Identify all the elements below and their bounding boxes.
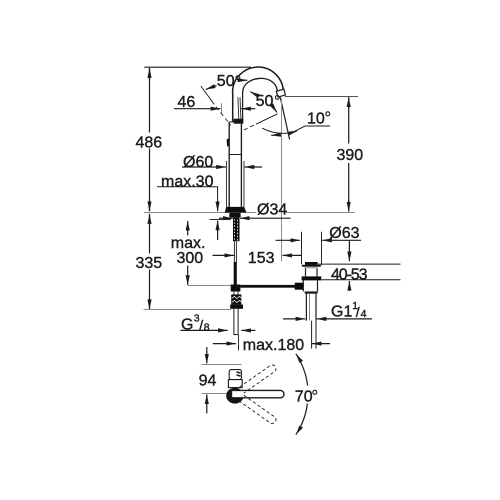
leader arrow 50 to spout pipe (239, 79, 248, 81)
dimension 335 (149, 214, 151, 254)
drain extension lines (301, 232, 303, 265)
max.30 leader and arrows (157, 187, 218, 202)
svg-text:390: 390 (337, 147, 364, 164)
svg-text:50: 50 (256, 93, 274, 110)
riser pipe left wall (232, 92, 234, 122)
drain flange top (305, 262, 318, 265)
base sleeve right wall (243, 161, 245, 207)
dimension 153 (213, 254, 235, 256)
hose fitting square (231, 285, 241, 292)
top view swivel disc (226, 388, 243, 404)
svg-text:Ø60: Ø60 (183, 154, 213, 171)
lever rod (237, 97, 240, 119)
dashed swivel position lower (240, 395, 278, 425)
svg-text:10: 10 (307, 111, 325, 128)
svg-text:94: 94 (199, 372, 217, 389)
body top edge (229, 121, 241, 123)
G3/8 arrows (181, 329, 228, 331)
svg-text:4: 4 (361, 308, 367, 320)
label G3/8 (181, 312, 210, 333)
svg-text:max.30: max.30 (161, 173, 214, 190)
mounting nut under deck (229, 213, 240, 218)
O60 arrows (182, 166, 226, 168)
svg-text:486: 486 (136, 135, 163, 152)
svg-text:G1: G1 (331, 303, 352, 320)
degree circle 50 lower (275, 96, 279, 100)
thin tube below nut (233, 309, 235, 335)
supply hose thick (234, 262, 237, 285)
dimension 94 (206, 347, 208, 353)
leader 10deg (291, 126, 331, 134)
threaded shank (233, 217, 240, 241)
dimension 46 line with arrows (174, 108, 220, 110)
tailpipe lower (311, 321, 313, 349)
swivel dash line left (201, 86, 214, 104)
spout outer arc (233, 67, 284, 92)
dimension 40-53 (348, 240, 350, 252)
water stream line 10 deg (280, 97, 289, 139)
O34 arrows (219, 217, 233, 219)
riser pipe right wall (242, 92, 244, 122)
nut below G3/8 (230, 305, 243, 309)
drain flange lip (302, 265, 321, 267)
svg-text:300: 300 (177, 250, 204, 267)
svg-text:50: 50 (217, 73, 235, 90)
70 degree arc (296, 354, 308, 386)
svg-text:Ø34: Ø34 (257, 202, 287, 219)
deck bottom line (210, 219, 232, 221)
label G1 1/4 (331, 300, 367, 321)
spout inner arc (243, 78, 278, 92)
extension tick for 46 (221, 103, 223, 114)
drain side knob (295, 283, 304, 290)
svg-text:8: 8 (204, 322, 210, 334)
escutcheon (225, 207, 247, 213)
pop-up rod (240, 285, 295, 288)
drain body walls (302, 280, 304, 291)
335 bottom extension line (144, 309, 232, 311)
O63 dimension arrows (276, 239, 301, 241)
svg-text:/: / (356, 304, 360, 320)
dimension max.300 (187, 221, 189, 232)
faucet body right wall (240, 122, 242, 208)
drain nut bar (302, 276, 322, 280)
flange shadow (304, 267, 317, 269)
dimension max.180 (213, 343, 236, 345)
svg-text:G: G (181, 317, 193, 334)
390 top reference line (285, 96, 358, 98)
aerator cap (276, 89, 285, 97)
leader arrow 50b to pipe (250, 92, 257, 96)
degree circle 50 upper (236, 76, 240, 80)
dimension 390 vertical line (348, 97, 350, 143)
angle arc 10deg (262, 128, 296, 133)
svg-text:335: 335 (136, 255, 163, 272)
top view body mid (228, 380, 242, 388)
vertical extension from spout outlet (281, 99, 283, 262)
dashed swivel position upper (240, 364, 278, 394)
svg-text:46: 46 (178, 94, 196, 111)
supply hose thin (233, 242, 235, 262)
drain bottom bar (305, 291, 318, 293)
top reference line (144, 66, 251, 68)
svg-text:Ø63: Ø63 (329, 225, 359, 242)
lever pivot (234, 119, 244, 124)
G3/8 threaded end (231, 294, 242, 304)
top view spout bar (232, 390, 285, 397)
clip bump on body (227, 138, 230, 146)
94 extension lines (202, 364, 242, 366)
tube below fitting (233, 292, 235, 295)
svg-text:max.180: max.180 (243, 337, 304, 354)
drain tailpipe (305, 294, 307, 321)
leader arrow 50 to swivel line (206, 86, 217, 90)
deck top line (144, 212, 256, 214)
body joint line (229, 154, 241, 156)
svg-text:40-53: 40-53 (331, 266, 368, 283)
drain neck walls (305, 268, 307, 276)
top view lever cap (229, 370, 241, 380)
G1 1/4 arrows (283, 318, 305, 320)
base sleeve left wall (226, 161, 228, 207)
svg-text:153: 153 (248, 250, 275, 267)
svg-text:70: 70 (295, 389, 313, 406)
dimension 486 vertical line (149, 68, 151, 133)
faucet body left wall (228, 122, 230, 208)
swivel dash line right (256, 114, 278, 124)
leader arrow 50b to swivel line (271, 104, 277, 113)
max.300 bottom extension (188, 285, 233, 287)
